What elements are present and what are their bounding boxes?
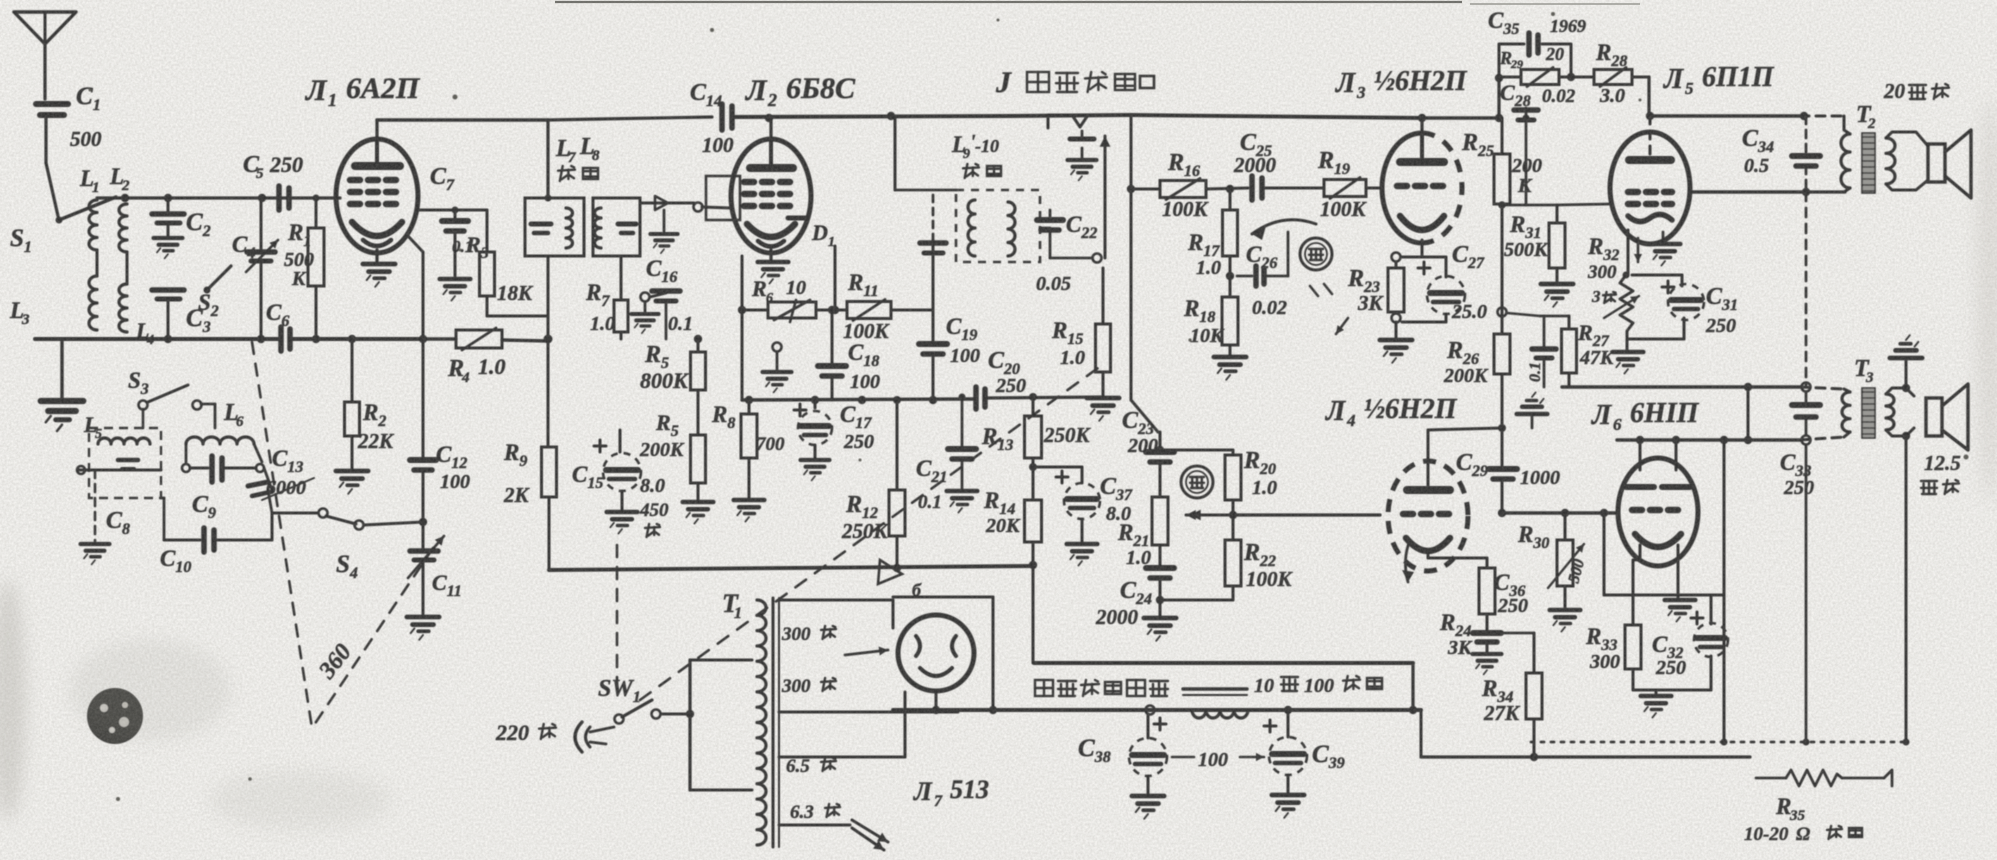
capacitor C20 [973,387,979,409]
ground [1677,545,1680,598]
wire [661,713,690,716]
diode D1 [788,216,806,221]
resistor R23 [1392,253,1401,262]
capacitor C32 [1710,595,1713,624]
tone indicator low [1300,238,1332,270]
resistor R11 [816,309,847,312]
filament taps [779,756,905,759]
tuning gang dashed link [252,342,312,728]
wire top bus [548,119,600,120]
ground [1626,339,1629,350]
resistor R16 [1131,188,1160,191]
screen node [773,343,782,352]
wiper arrow [1186,514,1240,517]
wire grid bus [1502,511,1618,514]
tube V3 [1382,133,1422,243]
wire B+ bus [1034,661,1413,665]
resistor R6 [742,309,768,312]
coil L3 [89,276,97,330]
switch S3 [139,401,148,410]
choke label [1035,680,1053,696]
padder cap [932,240,935,310]
wire ground bus [35,337,280,341]
capacitor C34 [1805,116,1808,154]
resistor R28 [1559,76,1594,79]
capacitor C2 [167,198,170,211]
resistor R20 [1232,450,1235,455]
ground [41,401,84,431]
scan edge artifact [555,1,1462,3]
wire bus to T3 [1562,385,1800,388]
tube V6 6N1P [1618,458,1698,566]
resistor R34 [1487,632,1534,635]
ground [1662,232,1665,242]
resistor R1 [315,198,318,228]
speaker [1928,144,1945,182]
capacitor C16 [641,293,650,302]
resistor R5b 200K [691,435,706,483]
capacitor C28 [1525,108,1528,118]
resistor R35 zigzag [1756,777,1786,780]
heater arrow [1637,238,1640,262]
capacitor C14 [719,104,725,130]
switch S1 [46,163,58,216]
cathode [1627,230,1630,275]
coil L4 [119,284,127,332]
ground [363,264,395,287]
pot R30 [1564,513,1567,540]
phono jack [1048,115,1131,128]
tube V1 6A2P [336,139,418,253]
grid wire arrow [1190,514,1380,517]
heater arrow [1405,540,1410,582]
capacitor C18 [831,310,834,364]
capacitor C21 [961,397,964,447]
trimmer [640,202,694,205]
node [1498,308,1507,317]
tone switch arrow [1252,220,1316,234]
capacitor C10 [164,539,200,542]
capacitor C12 [422,455,425,458]
switch S4 [272,512,318,515]
resistor R31 [1526,204,1557,207]
capacitor C26 [1229,256,1232,297]
capacitor C38 [1147,714,1150,738]
IF can 1 [525,198,584,256]
ink blob [87,688,143,744]
wire [1160,449,1233,452]
resistor R21 [1159,462,1162,497]
resistor R7 [620,256,623,300]
resistor R26 [1494,334,1510,374]
ground [769,250,772,260]
resistor R13 [1029,393,1037,401]
wire bus lower [1617,438,1800,441]
wire [546,120,549,198]
wire [161,497,164,500]
capacitor C25 [1206,188,1248,189]
wire [164,335,172,343]
capacitor C36 [1473,630,1501,636]
dial cord dashed [640,368,1098,700]
wire diode load [834,246,837,310]
capacitor C3 [152,287,184,293]
wire [892,600,895,628]
capacitor C37 [1033,466,1082,469]
wire plate bus [1647,77,1650,116]
wire top bus right [1010,115,1131,116]
heater winding 6.3V [779,824,850,827]
resistor R25 [1501,118,1504,154]
antenna [14,12,76,44]
ground [1905,360,1908,388]
wire [1130,330,1133,400]
resistor R19 [1324,180,1366,197]
capacitor C39 [1284,706,1292,714]
wire plate [1427,430,1430,462]
coil L2 [119,204,127,252]
resistor R33 [1625,625,1641,669]
capacitor C7 [454,210,457,219]
resistor R9 [542,447,557,497]
wire screen [1690,190,1845,193]
wire bottom bus [742,399,975,400]
switch S2 [204,287,211,294]
capacitor C5 [276,186,282,210]
capacitor C23 [1159,432,1162,450]
capacitor C1 [36,101,68,107]
wire [1905,436,1908,742]
wire [1032,566,1035,663]
node [1495,74,1503,82]
capacitor C6 [278,327,284,351]
resistor R8 [748,400,751,414]
wire AF bus [549,566,1033,570]
wire ground rail [1531,741,1906,744]
resistor R14 [1025,500,1042,542]
tube V4 [1388,461,1468,571]
speaker [1902,384,1910,392]
capacitor C35 [1499,44,1524,78]
resistor R3 [486,210,489,252]
feedback loop [1603,513,1606,595]
wire to V4 grid [1233,513,1380,516]
wire [97,196,290,199]
resistor R17 [1229,189,1232,210]
wire to oscillator [408,236,423,252]
wire grid [1557,204,1610,205]
resistor R12 [896,400,899,490]
wire grid2 [702,207,731,208]
tone indicator high [1181,466,1213,498]
tube V5 6P1P [1610,132,1690,244]
wire [741,256,744,400]
resistor R29 [1499,76,1521,79]
HV secondary taps [779,599,893,602]
tuning capacitor C4 [260,198,263,249]
cathode [1427,552,1430,558]
resistor R27 [1540,315,1569,318]
rectifier tube V7 [898,615,974,691]
resistor R18 [1222,297,1238,345]
resistor R2 [351,339,354,402]
ground [1655,690,1658,694]
ground [1531,416,1534,428]
volume pot R15 [1102,268,1105,324]
capacitor C31 [1632,274,1682,277]
wire [1690,190,1806,193]
wire plate bus [377,118,548,121]
capacitor C15 [619,430,622,452]
label 100 [1172,756,1194,759]
tube V2 6B8C [731,139,811,253]
wire grid [336,197,340,200]
wire heater bus [893,708,1421,712]
capacitor C19 [932,310,935,342]
resistor R4 [456,330,502,348]
capacitor C30 [1543,316,1546,347]
capacitor C22 [1040,227,1050,230]
wire [417,209,487,212]
IF can 2 [593,198,640,256]
resistor R5 800K [697,339,700,352]
capacitor C27 [1402,256,1446,259]
capacitor C17 [814,400,817,408]
cathode resistor R32 [1620,275,1633,337]
tuning capacitor C11 [422,522,425,548]
coil L1 [89,200,97,250]
wire AVC bus [547,256,550,445]
capacitor C13 [264,468,272,490]
resistor R22 [1232,515,1235,540]
capacitor C29 [1498,424,1506,432]
capacitor C33 [1805,392,1808,403]
cathode to R33 [1639,545,1642,560]
capacitor C24 [1159,558,1162,566]
capacitor C9 [182,464,190,472]
wire grid cap [706,176,740,220]
filter choke [1183,687,1247,690]
speckles [453,95,458,100]
resistor R24 [1486,558,1489,568]
wire [1498,201,1506,209]
